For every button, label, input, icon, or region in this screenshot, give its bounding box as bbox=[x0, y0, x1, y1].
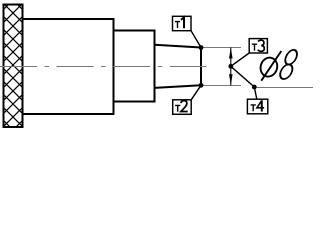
extension line top bbox=[201, 47, 241, 49]
label box T4 bbox=[247, 99, 267, 114]
label box T2 bbox=[173, 100, 192, 115]
node dot cone bottom bbox=[199, 83, 204, 88]
diameter symbol phi bbox=[258, 51, 281, 81]
node dot dimension mid bbox=[228, 64, 233, 69]
leader T1 bbox=[191, 31, 201, 48]
body rectangle (large cylinder section) bbox=[23, 19, 114, 114]
arrowhead up bbox=[229, 48, 233, 59]
leader T2 bbox=[191, 85, 201, 100]
label box T1 bbox=[173, 16, 192, 30]
extension line bottom bbox=[201, 85, 241, 87]
label box T3 bbox=[249, 39, 267, 53]
leader dimension to shelf bbox=[231, 66, 255, 87]
node dot cone top bbox=[199, 45, 204, 50]
node dot shelf bbox=[252, 85, 257, 90]
leader T3 bbox=[231, 53, 249, 66]
cone (tapered tip) bbox=[155, 45, 202, 88]
centerline bbox=[0, 66, 207, 68]
leader T4 bbox=[254, 87, 256, 99]
shelf line bbox=[254, 87, 313, 89]
arrowhead down bbox=[229, 74, 233, 85]
dimension text 8 bbox=[278, 50, 299, 79]
wall (hatched fixture block) bbox=[4, 5, 23, 128]
small rectangle (reduced cylinder section) bbox=[114, 31, 155, 102]
dimension line bbox=[230, 48, 232, 86]
